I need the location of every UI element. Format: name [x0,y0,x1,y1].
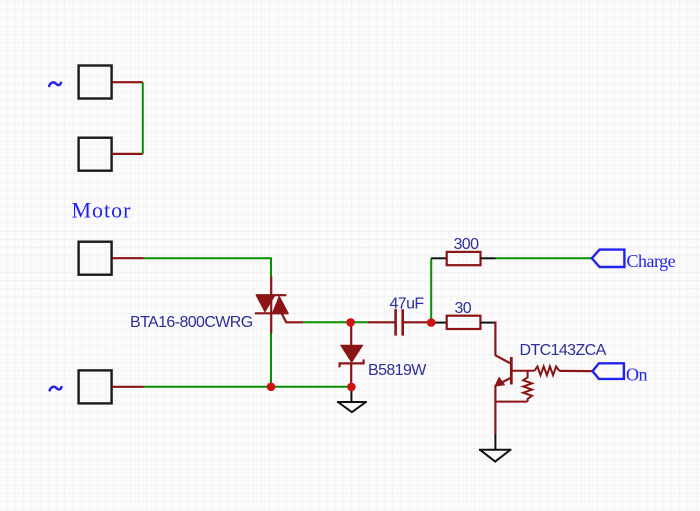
triac center line [270,277,272,334]
Q2 emitter wire down [494,385,496,434]
triac bottom bar [255,312,288,314]
Q2 collector diagonal [495,355,511,364]
svg-text:300: 300 [454,236,480,253]
wire zigzag to On flag [559,370,592,372]
diode D1 cathode pin [350,363,352,387]
svg-text:Charge: Charge [627,251,676,271]
Q2 input resistor zigzag horizontal [534,366,559,375]
wire: R30 down to Q2 collector [494,322,496,356]
wire: triac T1 down to bottom rail [270,332,272,387]
net flag On [593,363,624,379]
pin 1 stub [112,81,143,83]
svg-text:BTA16-800CWRG: BTA16-800CWRG [130,314,253,331]
junction dot: cap/R30/R300 node [427,318,436,327]
junction dot: bottom rail / diode [347,383,356,392]
triac right triangle [273,296,289,313]
transistor Q2 DTC143ZCA [494,355,592,434]
capacitor C1 47uF plates [394,309,397,335]
motor pin 1 stub [112,257,144,259]
capacitor C1 left pin [368,321,395,323]
ground stub under D1 [350,387,352,402]
pin 2 stub [112,153,143,155]
Q2 base bar [510,357,513,385]
svg-text:DTC143ZCA: DTC143ZCA [520,342,607,359]
triac Q1 BTA16-800CWRG [255,277,303,334]
wire: motor pin1 to triac T2 [144,258,271,277]
resistor R2 30 body [447,316,481,329]
junction dot: gate/cap/diode node [346,318,355,327]
diode D1 schottky bar [340,359,364,367]
svg-text:B5819W: B5819W [368,362,427,379]
wire: bottom rail [144,386,352,388]
svg-text:30: 30 [455,300,472,317]
connector Motor box pin 2 [79,370,112,403]
wire: R300 to Charge flag [495,257,591,259]
wire: vertical joining AC pins [142,82,144,154]
connector Motor box pin 1 [79,242,112,275]
triac top bar [256,294,286,296]
Q2 emitter diagonal [497,378,511,386]
connector AC top box pin 2 [79,138,112,171]
ground symbol under D1 [337,402,367,412]
svg-text:47uF: 47uF [390,295,425,312]
resistor R1 300 body [447,252,481,265]
svg-text:On: On [626,365,647,385]
resistor R2 30 left stub [431,322,447,324]
junction dot: bottom rail / triac [267,383,276,392]
Q2 pull-down resistor zigzag vertical [523,371,532,402]
triac left triangle [256,295,275,312]
Q2 base wire to zigzag [511,370,534,372]
capacitor C1 right pin [404,321,431,323]
svg-text:Motor: Motor [72,198,132,223]
connector Motor tilde label [50,387,62,391]
connector AC top box pin 1 [79,66,112,99]
Q2 emitter arrowhead [494,377,505,387]
triac gate lead [282,313,304,322]
ground symbol under Q2 [479,450,512,462]
motor pin 2 stub [112,386,144,388]
wire: node up to R300 [430,258,432,322]
resistor R1 300 left stub [431,257,447,259]
net flag Charge [592,250,625,267]
resistor R2 30 right stub [480,322,495,324]
diode D1 body [341,346,362,362]
ground stub under Q2 [494,434,496,450]
diode D1 B5819W pin from node [350,322,352,346]
Q2 resistor bottom connector [495,401,527,403]
wire: gate to node [303,321,369,323]
resistor R1 300 right stub [481,257,496,259]
connector AC top: tilde label [49,82,61,86]
